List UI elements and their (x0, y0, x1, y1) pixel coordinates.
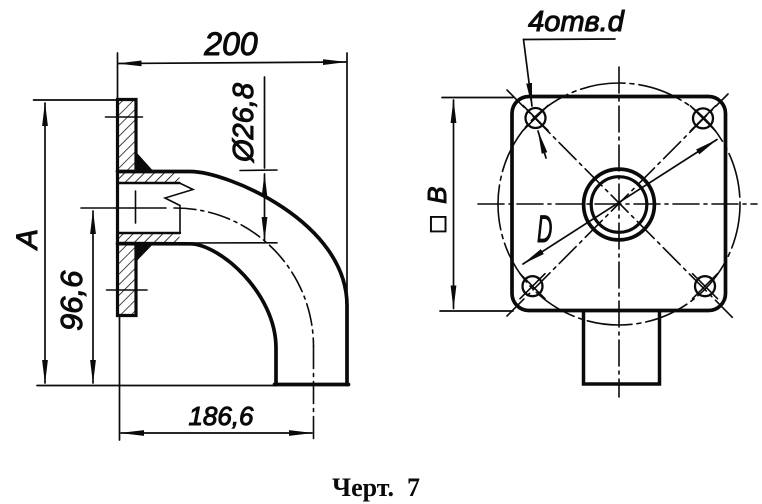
bolt hole BL (520, 274, 545, 299)
flange outline (118, 100, 137, 316)
wire: dim 186,6 left extension (119, 316, 121, 440)
dimension Ø26,8 line with arrows (264, 77, 266, 168)
central bore inner circle (591, 177, 647, 233)
pipe lower wall in section (hatched strip) (118, 233, 180, 244)
bolt circle (dash-dot) (498, 83, 740, 325)
dimension 96,6 line with arrows (92, 211, 94, 383)
wire: elbow axis centerline arc (dash-dot) (174, 208, 314, 347)
pipe bore wall upper line (118, 182, 180, 184)
wire: extension line A top (flange top level) (34, 99, 119, 101)
wire: corner diagonal BL-TR (dash-dot) (507, 94, 728, 316)
wire: dim 200 right extension (346, 53, 348, 306)
wire: Ø26,8 top extension (outer wall level) (240, 169, 277, 172)
pipe upper wall in section (hatched strip) (118, 172, 180, 184)
flange plate hatch fill lower part (118, 244, 137, 316)
wire: leader to TL hole with arrow (524, 40, 533, 107)
wire: □B bottom extension (440, 310, 513, 312)
pipe outlet end edge (thick) (275, 383, 349, 387)
wire: Ø26,8 bottom extension (lower wall level) (180, 242, 278, 244)
weld fillet bottom (solid) (136, 244, 153, 262)
bolt hole TR (691, 106, 716, 131)
svg-text:Черт. 7: Черт. 7 (332, 473, 420, 502)
svg-text:186,6: 186,6 (188, 401, 254, 431)
wire: baseline extension for A and 96,6 (37, 385, 276, 387)
svg-text:4отв.d: 4отв.d (528, 6, 625, 38)
pipe outer contour (top of elbow) (118, 172, 348, 385)
wire: small d arrow below TL hole (538, 131, 546, 158)
dimension A line with arrows (44, 103, 46, 383)
bolt hole TL (523, 106, 548, 131)
weld fillet top (solid) (136, 153, 153, 172)
wire: bolt hole centre tick top (106, 116, 143, 118)
svg-text:Ø26,8: Ø26,8 (228, 83, 260, 163)
svg-text:□ B: □ B (422, 187, 452, 232)
bolt hole BR (693, 274, 718, 299)
central bore outer circle (584, 169, 655, 240)
pipe bore wall lower line (118, 232, 181, 234)
wire: break line zigzag at pipe stub (165, 183, 193, 233)
outlet stub pipe below flange (584, 311, 660, 384)
dimension 186,6 line with arrows (121, 432, 312, 434)
label 4отв.d leader shelf (524, 38, 616, 41)
svg-text:D: D (537, 207, 552, 250)
svg-text:200: 200 (203, 26, 258, 62)
wire: □B top extension (442, 97, 513, 99)
flange plate hatch fill upper part (118, 100, 137, 172)
wire: pipe axis horizontal centerline / 96,6 extension (81, 207, 166, 209)
wire: centerline vertical tick at flange face (135, 191, 137, 223)
wire: dim 200 left extension (117, 53, 119, 99)
wire: horizontal centerline (dash-dot) (478, 203, 757, 205)
dimension D diagonal line with arrows (523, 140, 717, 265)
wire: vertical centerline (dash-dot) (618, 67, 620, 397)
wire: outlet axis centerline vertical (dash-dot) (313, 347, 315, 442)
dimension □B line with arrows (453, 100, 455, 309)
svg-text:A: A (11, 229, 44, 251)
pipe inner contour (bottom of elbow) (118, 244, 277, 385)
square flange outline (512, 97, 726, 311)
dimension 200 line with arrows (119, 62, 347, 64)
wire: bolt hole centre tick bottom (107, 289, 148, 291)
svg-text:96,6: 96,6 (54, 270, 89, 331)
wire: corner diagonal TL-BR (dash-dot) (507, 90, 733, 318)
